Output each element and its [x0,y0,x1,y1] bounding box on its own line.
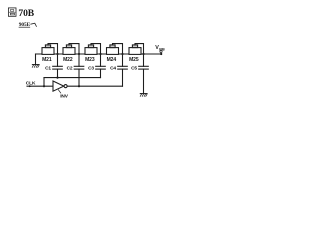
capacitor C5 (output reservoir) [139,54,149,94]
wire: CLK bus (upper clock bus feeding C1 and C3) [44,77,101,79]
node: CLK junction dot [43,85,45,87]
svg-text:C5: C5 [131,65,137,71]
ground (left, pump input) [32,54,39,67]
capacitor C4 [118,54,128,86]
transistor M21 (diode-connected) [42,44,58,55]
wire: riser from CLK input to CLK bus [43,78,45,87]
node: C1 junction on CLK bus [56,77,58,79]
op-amp/inverter INV [53,81,67,91]
capacitor C3 [96,54,106,78]
transistor M23 (diode-connected) [85,44,101,55]
svg-text:M22: M22 [63,57,73,63]
svg-text:M23: M23 [85,57,95,63]
svg-text:M24: M24 [107,57,117,63]
label VBB [155,45,165,51]
transistor M24 (diode-connected) [107,44,123,55]
transistor M25 (diode-connected) [129,44,144,55]
svg-text:CLK: CLK [26,81,36,87]
node: C2 junction on CLKB bus [78,85,80,87]
wire: CLK input with arrowhead [27,85,53,87]
svg-text:M25: M25 [129,57,139,63]
transistor M22 (diode-connected) [63,44,79,55]
label 905E with underline [19,22,31,28]
figure title 70B [8,8,34,19]
wire: CLKB bus (inverter output feeding C2 and C4) [67,85,122,87]
capacitor C2 [74,54,84,86]
node: VBB output terminal [160,50,162,55]
svg-text:C1: C1 [45,65,51,71]
label INV with leader [58,90,68,100]
svg-text:C2: C2 [67,65,73,71]
svg-text:M21: M21 [42,57,52,63]
svg-text:BB: BB [159,48,165,52]
leader arrow from 905E label [31,23,37,26]
capacitor C1 [53,54,63,78]
svg-text:C4: C4 [110,65,116,71]
node: rail junction dots [56,53,144,55]
svg-text:70B: 70B [18,8,34,19]
svg-text:INV: INV [60,94,69,100]
ground (right, under C5) [140,94,147,97]
wire: top rail [36,53,162,55]
svg-text:C3: C3 [88,65,94,71]
